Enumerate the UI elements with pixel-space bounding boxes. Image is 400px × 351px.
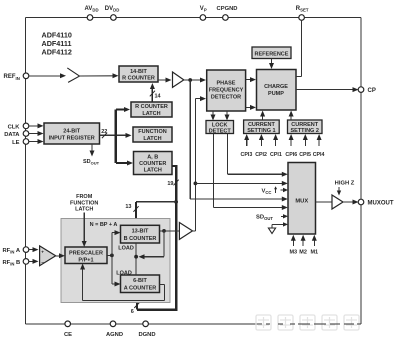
bus vertical latch feed xyxy=(115,110,118,164)
bus 19-bit from A,B counter latch (down right side) xyxy=(137,165,179,310)
block FUNCTION LATCH xyxy=(133,127,172,142)
block PHASE FREQUENCY DETECTOR U3 xyxy=(207,70,246,111)
wire N buffer to N node xyxy=(193,230,196,232)
region N divider (shaded) xyxy=(61,219,170,303)
svg-text:24-BIT: 24-BIT xyxy=(63,129,80,135)
label FROM FUNCTION LATCH xyxy=(70,194,98,212)
pin MUXOUT xyxy=(358,199,394,206)
block 6-BIT A COUNTER xyxy=(121,275,160,293)
wire DATA into input register xyxy=(29,131,44,136)
wire REFERENCE to charge pump xyxy=(269,59,274,70)
wire output buffer to MUXOUT pin xyxy=(343,200,359,205)
label M3 M2 M1 xyxy=(289,249,318,255)
wire LE into input register xyxy=(29,139,44,144)
svg-text:RSET: RSET xyxy=(296,6,309,13)
pin AGND xyxy=(106,321,123,338)
svg-text:CPI2: CPI2 xyxy=(255,152,267,158)
svg-text:CURRENT: CURRENT xyxy=(248,122,276,128)
svg-text:M1: M1 xyxy=(310,249,318,255)
svg-text:LATCH: LATCH xyxy=(144,167,162,173)
pin RFINB xyxy=(3,259,29,267)
wire CPI5 into current setting 2 xyxy=(303,134,308,146)
svg-text:CHARGE: CHARGE xyxy=(264,84,288,90)
wire CPI4 into current setting 2 xyxy=(317,134,322,146)
svg-text:DETECT: DETECT xyxy=(209,128,232,134)
buffer RF input differential U5 xyxy=(40,246,56,266)
svg-text:13: 13 xyxy=(125,204,131,210)
wire chip boundary left xyxy=(25,18,27,324)
wire PFD down output to charge pump xyxy=(246,105,256,110)
svg-text:CP: CP xyxy=(368,88,376,94)
wire CPI6 into current setting 2 xyxy=(289,134,294,146)
svg-text:SDOUT: SDOUT xyxy=(256,215,273,222)
bus 14-bit R counter latch to R counter xyxy=(150,83,162,102)
label part numbers ADF4110 ADF4111 ADF4112 xyxy=(42,31,72,57)
svg-text:FUNCTION: FUNCTION xyxy=(138,129,166,135)
block CURRENT SETTING 1 xyxy=(244,120,280,134)
buffer MUXOUT output U8 xyxy=(332,195,343,209)
svg-text:REFIN: REFIN xyxy=(4,74,20,81)
svg-text:22: 22 xyxy=(101,129,107,135)
wire PFD up output to charge pump xyxy=(246,77,256,82)
bus 6-bit into A counter bottom xyxy=(131,294,140,315)
svg-text:−: − xyxy=(41,260,44,265)
buffer N divider output U6 xyxy=(179,223,192,240)
wire chip boundary right xyxy=(360,18,362,324)
svg-text:CURRENT: CURRENT xyxy=(291,122,319,128)
svg-text:M3: M3 xyxy=(289,249,297,255)
svg-text:B COUNTER: B COUNTER xyxy=(124,236,157,242)
buffer R counter output U2 xyxy=(173,72,184,87)
block 14-BIT R COUNTER xyxy=(119,66,158,82)
pin RSET xyxy=(296,6,309,20)
bus branch to R counter latch xyxy=(116,107,130,112)
svg-text:PUMP: PUMP xyxy=(268,91,284,97)
svg-text:SDOUT: SDOUT xyxy=(83,159,100,166)
wire RSET to charge pump xyxy=(296,20,302,76)
svg-text:INPUT REGISTER: INPUT REGISTER xyxy=(49,136,95,142)
wire current setting 2 to charge pump xyxy=(289,111,294,121)
wire RF buffer to prescaler xyxy=(56,253,65,258)
svg-text:14-BIT: 14-BIT xyxy=(130,69,147,75)
svg-text:VCC: VCC xyxy=(262,188,272,195)
pin RFINA xyxy=(3,247,29,255)
svg-text:DGND: DGND xyxy=(138,332,155,338)
ground symbol DGND at MUX input xyxy=(268,222,288,233)
svg-text:AGND: AGND xyxy=(106,332,123,338)
bus branch to A,B counter latch xyxy=(116,161,133,166)
svg-text:M2: M2 xyxy=(299,249,307,255)
bus 22-bit from input register to function latch xyxy=(100,129,132,138)
wire R counter output branch down to MUX (input 3) xyxy=(190,80,288,202)
pin CLK xyxy=(8,123,29,130)
block 13-BIT B COUNTER xyxy=(121,225,160,243)
wire chip boundary top xyxy=(26,17,362,19)
block MUX U7 xyxy=(288,163,316,235)
wire CPI1 into current setting 1 xyxy=(273,134,278,146)
wire chip boundary bottom (left solid part) xyxy=(26,323,263,325)
wire lock detect output left to MUX (input 4) xyxy=(213,134,287,211)
pin AVDD xyxy=(85,6,99,20)
svg-text:6-BIT: 6-BIT xyxy=(133,278,147,284)
svg-text:19: 19 xyxy=(167,181,173,187)
svg-text:6: 6 xyxy=(131,309,134,315)
wire R counter to R buffer xyxy=(158,78,172,83)
wire chip boundary bottom (faded dashed part under watermark) xyxy=(266,323,361,325)
svg-text:AVDD: AVDD xyxy=(85,6,99,13)
svg-text:LATCH: LATCH xyxy=(143,136,161,142)
wire REFIN to input buffer xyxy=(29,73,66,78)
pin VP xyxy=(200,6,207,20)
label VCC with arrow into MUX xyxy=(262,186,289,195)
wire N divider output to PFD input 2 xyxy=(195,96,206,231)
label CPI6 CPI5 CPI4 xyxy=(285,152,324,158)
block R COUNTER LATCH xyxy=(131,102,172,117)
wire prescaler output to counters xyxy=(107,230,121,286)
wire RFINB into RF buffer xyxy=(29,259,39,264)
wire B counter to A counter (load chain) xyxy=(135,243,137,275)
pin CP xyxy=(358,87,376,94)
svg-text:REFERENCE: REFERENCE xyxy=(255,51,289,57)
svg-text:VP: VP xyxy=(200,6,207,13)
svg-text:A COUNTER: A COUNTER xyxy=(124,286,157,292)
label CPI3 CPI2 CPI1 xyxy=(241,152,282,158)
svg-text:DVDD: DVDD xyxy=(105,6,120,13)
svg-text:CPI5: CPI5 xyxy=(299,152,311,158)
svg-text:FROM: FROM xyxy=(76,194,93,200)
block A,B COUNTER LATCH xyxy=(134,152,173,175)
svg-text:LOAD: LOAD xyxy=(118,246,134,252)
wire modulus control A counter to prescaler xyxy=(80,264,164,301)
svg-text:13-BIT: 13-BIT xyxy=(132,229,149,235)
svg-text:SETTING 2: SETTING 2 xyxy=(290,128,318,134)
pin REFIN xyxy=(4,73,29,81)
wire M2 select into MUX xyxy=(301,235,306,246)
wire input buffer to R counter xyxy=(80,73,119,78)
svg-text:+: + xyxy=(41,249,44,254)
bus 13-bit branch into B counter top xyxy=(125,200,178,225)
block LOCK DETECT xyxy=(206,121,234,135)
svg-text:R COUNTER: R COUNTER xyxy=(135,104,168,110)
pin CPGND xyxy=(217,6,238,20)
svg-text:DETECTOR: DETECTOR xyxy=(211,94,241,100)
block CHARGE PUMP U4 xyxy=(257,70,297,111)
svg-text:RFIN A: RFIN A xyxy=(3,248,21,255)
svg-text:DATA: DATA xyxy=(4,132,20,138)
svg-text:N = BP + A: N = BP + A xyxy=(90,222,118,228)
pin DATA xyxy=(4,131,29,138)
block REFERENCE xyxy=(252,47,291,59)
wire high-z control into output buffer xyxy=(337,187,341,196)
wire CPI3 into current setting 1 xyxy=(244,134,249,146)
svg-text:CE: CE xyxy=(64,332,72,338)
block PRESCALER P/P+1 xyxy=(65,247,107,264)
label SDOUT with arrow into MUX xyxy=(256,214,288,221)
svg-text:P/P+1: P/P+1 xyxy=(78,257,93,263)
wire function latch control into prescaler xyxy=(82,213,87,248)
pin DVDD xyxy=(105,6,120,20)
wire charge pump output to CP pin xyxy=(296,87,359,92)
wire M3 select into MUX xyxy=(291,235,296,246)
wire M1 select into MUX xyxy=(312,235,317,246)
svg-text:FUNCTION: FUNCTION xyxy=(70,200,98,206)
pin LE xyxy=(12,139,29,146)
wire PFD to lock detect (left) xyxy=(211,111,216,121)
wire RFINA into RF buffer xyxy=(29,247,39,252)
svg-text:CPI3: CPI3 xyxy=(241,152,253,158)
svg-text:A, B: A, B xyxy=(147,154,158,160)
wire MUX to output buffer xyxy=(316,201,333,203)
svg-text:LE: LE xyxy=(12,140,20,146)
svg-text:MUXOUT: MUXOUT xyxy=(368,200,394,206)
svg-text:CPGND: CPGND xyxy=(217,6,238,12)
svg-text:COUNTER: COUNTER xyxy=(139,161,166,167)
svg-text:ADF4112: ADF4112 xyxy=(42,48,72,57)
svg-text:PHASE: PHASE xyxy=(217,80,236,86)
wire lock detect output right to MUX (input 1) xyxy=(227,134,287,177)
block CURRENT SETTING 2 xyxy=(288,120,323,134)
pin DGND xyxy=(138,321,155,338)
svg-text:CPI1: CPI1 xyxy=(270,152,282,158)
wire CLK into input register xyxy=(29,123,44,128)
pin CE xyxy=(64,321,72,338)
svg-text:PRESCALER: PRESCALER xyxy=(69,250,103,256)
svg-text:FREQUENCY: FREQUENCY xyxy=(209,87,244,93)
watermark (faint glyph-like marks, bottom right) xyxy=(256,315,359,330)
wire CPI2 into current setting 1 xyxy=(259,134,264,146)
svg-text:MUX: MUX xyxy=(295,199,308,205)
block 24-BIT INPUT REGISTER xyxy=(44,123,100,144)
wire R buffer to PFD input 1 xyxy=(184,78,206,83)
svg-text:RFIN B: RFIN B xyxy=(3,260,21,267)
svg-text:HIGH Z: HIGH Z xyxy=(335,181,355,187)
svg-text:LATCH: LATCH xyxy=(142,111,160,117)
buffer reference input (open chevron) xyxy=(67,68,79,83)
wire PFD to lock detect (right) xyxy=(225,111,230,121)
svg-text:14: 14 xyxy=(155,93,162,99)
svg-text:LOAD: LOAD xyxy=(116,270,132,276)
wire B counter output load feedback xyxy=(134,229,166,259)
svg-text:R COUNTER: R COUNTER xyxy=(122,75,155,81)
svg-text:LATCH: LATCH xyxy=(75,207,93,213)
svg-text:CPI6: CPI6 xyxy=(285,152,297,158)
wire B counter output to N buffer xyxy=(160,230,180,232)
wire current setting 1 to charge pump xyxy=(260,111,265,121)
svg-text:CPI4: CPI4 xyxy=(313,152,325,158)
svg-text:CLK: CLK xyxy=(8,124,21,130)
svg-text:SETTING 1: SETTING 1 xyxy=(247,128,275,134)
wire SDOUT from input register xyxy=(83,144,100,166)
wire N divider output branch to MUX (input 2) xyxy=(194,181,288,186)
